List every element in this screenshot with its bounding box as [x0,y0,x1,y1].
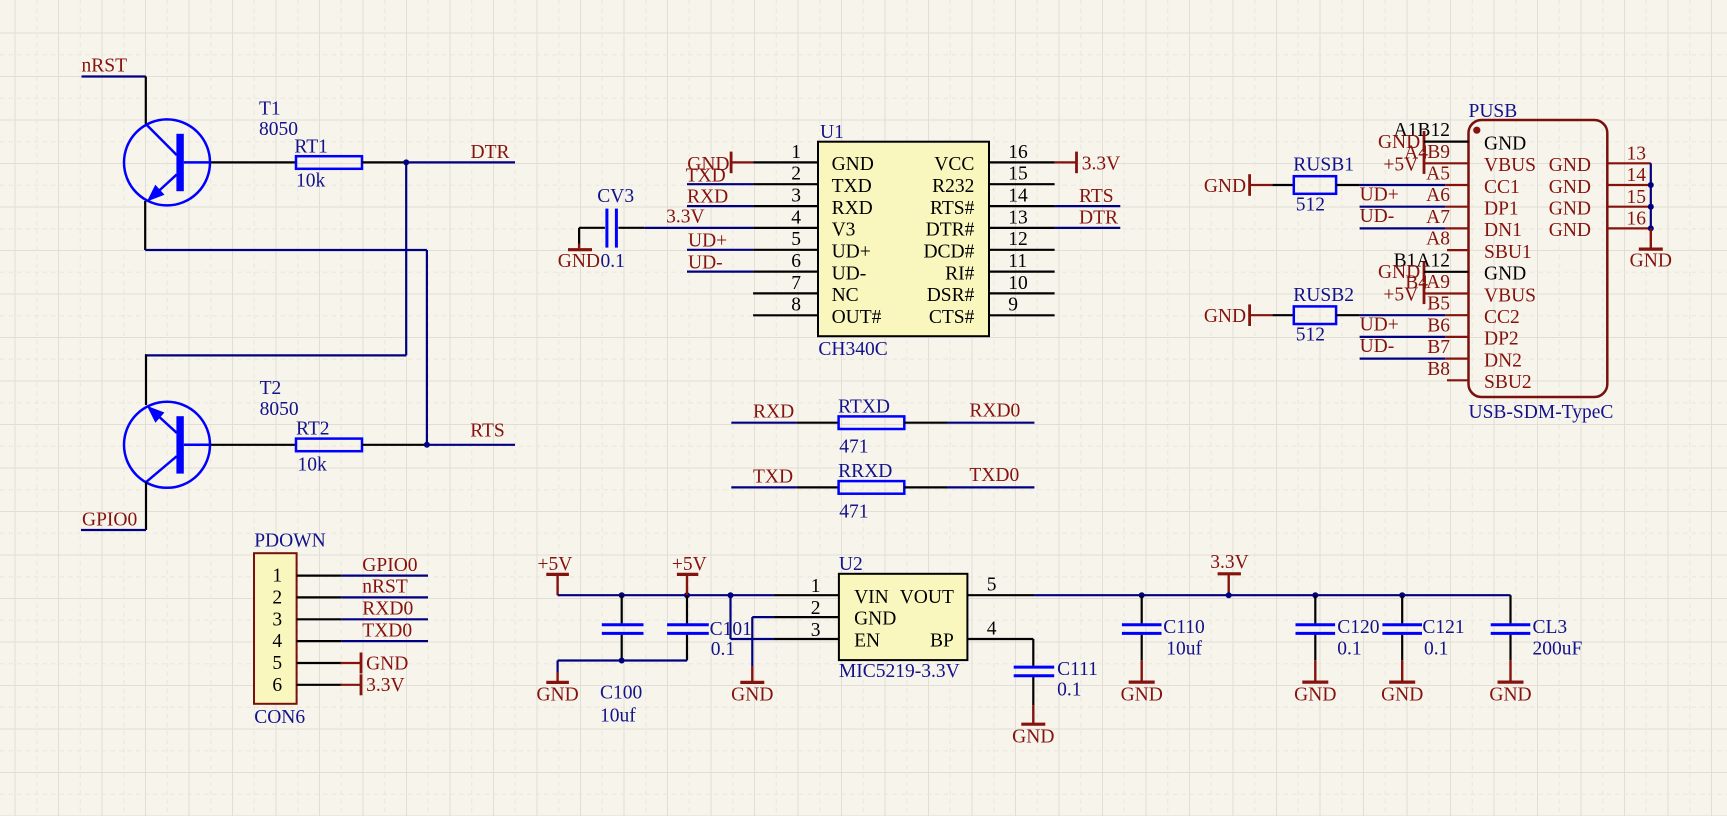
wire UD+ to DP2 [1360,336,1469,338]
PUSB right pin name GND row2 [1549,155,1591,176]
svg-text:U1: U1 [820,122,844,143]
svg-text:1: 1 [811,576,821,597]
svg-text:OUT#: OUT# [832,307,882,328]
PUSB right pin name GND row3 [1549,177,1591,198]
net label nRST at PDOWN [362,577,408,598]
svg-text:GND: GND [1489,684,1531,705]
svg-text:0.1: 0.1 [1337,639,1361,660]
junction shield row5 [1648,225,1654,231]
net label TXD0 at PDOWN [362,620,412,641]
net label TXD [753,466,793,487]
junction C100 [619,592,625,598]
capacitor C120 [1296,595,1336,660]
PUSB pin designator A5 row3 [1426,164,1450,185]
svg-text:TXD: TXD [686,165,726,186]
wire +5V rail [558,594,774,596]
svg-text:8: 8 [791,295,801,316]
svg-text:SBU1: SBU1 [1484,242,1532,263]
resistor RT1 [296,156,362,169]
label RTXD value 471 [839,437,868,458]
svg-text:0.1: 0.1 [1057,680,1081,701]
svg-text:471: 471 [839,437,868,458]
PUSB right pin name GND row5 [1549,220,1591,241]
svg-text:DTR: DTR [1079,208,1118,229]
svg-text:5: 5 [272,653,282,674]
wire GND to RUSB1 [1250,184,1294,186]
op-amp U1 body [818,142,989,337]
label PUSB designator [1469,101,1518,122]
wire RXD [731,422,797,424]
svg-text:+5V: +5V [1383,285,1418,306]
svg-text:GND: GND [1549,199,1591,220]
U1 pin 3 RXD [753,186,873,219]
svg-text:DTR#: DTR# [926,220,975,241]
svg-text:BP: BP [930,631,954,652]
label C101 designator [710,619,752,640]
svg-text:UD+: UD+ [1360,315,1399,336]
label T1 designator [259,99,281,120]
PUSB pin designator A8 row6 [1426,229,1450,250]
svg-text:GND: GND [1484,264,1526,285]
svg-text:2: 2 [791,164,801,185]
wire RUSB2 right [1336,314,1360,316]
svg-text:RXD: RXD [753,402,794,423]
svg-text:GND: GND [832,154,874,175]
svg-text:5: 5 [791,229,801,250]
svg-text:15: 15 [1627,187,1647,208]
PDOWN pin 4 [272,631,341,652]
svg-text:13: 13 [1627,144,1647,165]
svg-text:CC2: CC2 [1484,307,1520,328]
wire RT1 right [362,161,406,163]
svg-text:EN: EN [854,631,880,652]
net label GPIO0 [82,510,137,531]
U1 pin 15 R232 [932,164,1054,197]
U2 pin 3 [773,620,839,641]
power GND at RUSB1 [1204,174,1250,197]
svg-text:1: 1 [791,142,801,163]
svg-text:SBU2: SBU2 [1484,372,1532,393]
svg-text:8050: 8050 [259,119,298,140]
svg-text:10k: 10k [298,454,328,475]
svg-text:DSR#: DSR# [927,285,975,306]
svg-text:3: 3 [272,609,282,630]
power GND at PUSB B1A12 [1378,261,1469,283]
wire RUSB2 to CC2 [1360,314,1469,316]
label C110 value 10uf [1166,639,1202,660]
svg-text:R232: R232 [932,176,974,197]
svg-text:GND: GND [1549,220,1591,241]
net label UD+ at DP1 [1360,184,1399,205]
U2 pin 2 [773,598,839,619]
svg-text:10uf: 10uf [1166,639,1202,660]
PUSB pin name VBUS row8 [1484,285,1536,306]
svg-text:9: 9 [1008,295,1018,316]
svg-text:B7: B7 [1427,337,1450,358]
svg-text:DP1: DP1 [1484,199,1519,220]
U1 pin 16 VCC [934,142,1054,175]
svg-text:RTXD: RTXD [838,397,890,418]
svg-text:VCC: VCC [934,154,974,175]
svg-text:GPIO0: GPIO0 [82,510,137,531]
PUSB pin 14 [1607,165,1651,186]
wire shield bus [1650,163,1652,228]
ground at CV3 [558,228,600,272]
junction EN branch [728,592,734,598]
wire UD+ to DP1 [1360,206,1469,208]
svg-text:TXD0: TXD0 [362,620,412,641]
wire TXD0 [947,486,1034,488]
svg-text:UD-: UD- [832,263,867,284]
svg-text:UD+: UD+ [688,231,727,252]
label C121 value 0.1 [1424,639,1448,660]
capacitor C101 [667,595,709,660]
wire RTXD left [797,422,839,424]
svg-text:C120: C120 [1337,617,1379,638]
svg-text:A6: A6 [1426,185,1450,206]
wire to T2 emitter [145,354,147,405]
svg-text:GND: GND [1204,306,1246,327]
net label RTS [470,420,505,441]
PDOWN pin 1 [272,566,341,587]
net label TXD [686,165,726,186]
junction shield row4 [1648,204,1654,210]
svg-text:DTR: DTR [471,142,510,163]
svg-text:13: 13 [1008,207,1028,228]
capacitor C110 [1122,595,1162,660]
U2 pin 4 [967,618,1033,639]
label PUSB value USB-SDM-TypeC [1469,402,1614,423]
junction C110 [1139,592,1145,598]
svg-text:16: 16 [1627,209,1647,230]
svg-text:GPIO0: GPIO0 [362,555,417,576]
svg-text:3.3V: 3.3V [1082,154,1120,175]
svg-text:T1: T1 [259,99,281,120]
wire RTS [427,444,515,446]
regulator U2 body [839,574,968,660]
label T2 designator [260,378,282,399]
PUSB pin name CC1 row3 [1484,177,1520,198]
svg-text:B6: B6 [1427,315,1450,336]
svg-text:B8: B8 [1427,359,1450,380]
svg-text:GND: GND [366,653,408,674]
svg-text:6: 6 [272,675,282,696]
PUSB right pin name GND row4 [1549,199,1591,220]
power GND at PUSB A1B12 [1378,131,1469,153]
wire UD+ [687,249,753,251]
PUSB pin designator B7 row11 [1427,337,1450,358]
svg-text:6: 6 [791,251,801,272]
wire TXD0 at PDOWN [342,640,428,642]
net label 3.3V [666,207,704,228]
wire to T1 collector [145,77,147,125]
wire TXD [731,486,797,488]
wire DTR [406,161,515,163]
wire RXD0 at PDOWN [342,618,428,620]
wire DTR vertical [405,162,407,355]
ground at CL3 [1489,660,1531,705]
svg-text:14: 14 [1627,165,1647,186]
label RRXD value 471 [839,501,868,522]
power GND at RUSB2 [1204,304,1250,327]
svg-text:15: 15 [1008,164,1028,185]
PUSB pin designator B6 row10 [1427,315,1450,336]
power +5V right [672,554,707,595]
wire emitter horizontal [145,249,427,251]
label C100 designator [600,683,642,704]
U1 pin 6 UD- [753,251,866,284]
wire nRST at PDOWN [342,596,428,598]
resistor RT2 [296,439,362,452]
PUSB pin1 mark [1473,127,1480,134]
svg-text:VOUT: VOUT [900,587,954,608]
PUSB pin name SBU1 row6 [1484,242,1532,263]
svg-text:TXD: TXD [753,466,793,487]
svg-text:+5V: +5V [1383,154,1418,175]
svg-text:RUSB1: RUSB1 [1293,155,1354,176]
svg-text:C110: C110 [1163,617,1205,638]
label C111 value 0.1 [1057,680,1081,701]
label CL3 value 200uF [1533,639,1583,660]
U1 pin 13 DTR# [926,207,1055,240]
svg-text:CV3: CV3 [597,186,634,207]
junction RTS [424,442,430,448]
junction C120 [1312,592,1318,598]
label RTXD designator [838,397,890,418]
net label RXD [687,187,728,208]
U2 pin name VOUT [900,587,954,608]
svg-text:USB-SDM-TypeC: USB-SDM-TypeC [1469,402,1614,423]
PDOWN pin 5 [272,653,341,674]
PUSB pin 16 [1607,209,1651,230]
connector PUSB body [1469,120,1608,397]
wire GPIO0 at PDOWN [342,574,428,576]
U1 pin 9 CTS# [929,295,1055,328]
svg-text:2: 2 [272,587,282,608]
svg-text:VBUS: VBUS [1484,285,1536,306]
svg-text:DN2: DN2 [1484,350,1522,371]
label U2 value MIC5219-3.3V [839,661,960,682]
power 3.3V rail [1210,552,1248,595]
resistor RUSB1 [1294,176,1336,194]
U1 pin 12 DCD# [923,229,1054,262]
ground at C121 [1381,660,1423,705]
svg-text:7: 7 [791,273,801,294]
wire RXD [687,205,753,207]
PUSB pin designator A1B12 row1 [1394,120,1450,141]
capacitor C121 [1382,595,1422,660]
svg-text:5: 5 [987,575,997,596]
wire RTS out [1055,205,1121,207]
U2 pin name VIN [854,587,889,608]
PUSB pin name SBU2 row12 [1484,372,1532,393]
label RUSB2 value 512 [1296,325,1325,346]
label C120 value 0.1 [1337,639,1361,660]
net label UD- at DN2 [1360,336,1395,357]
svg-text:10: 10 [1008,273,1028,294]
label RUSB1 designator [1293,155,1354,176]
svg-text:3: 3 [791,186,801,207]
PUSB pin SBU2 stub [1447,379,1469,381]
ground at C120 [1294,660,1336,705]
net label GPIO0 at PDOWN [362,555,417,576]
U2 pin 1 [773,576,839,597]
svg-text:GND: GND [558,251,600,272]
svg-text:3.3V: 3.3V [1210,552,1248,573]
wire DTR out [1055,227,1121,229]
svg-text:A8: A8 [1426,229,1450,250]
PUSB pin name CC2 row9 [1484,307,1520,328]
svg-text:GND: GND [854,609,896,630]
svg-text:RRXD: RRXD [838,461,892,482]
svg-text:UD-: UD- [1360,336,1395,357]
svg-text:PDOWN: PDOWN [254,531,326,552]
power 3.3V at U1 pin16 [1055,152,1121,175]
connector PDOWN body [254,553,297,704]
PUSB pin designator A9 row8 [1405,272,1450,294]
svg-text:UD+: UD+ [1360,184,1399,205]
power GND at PDOWN pin5 [340,653,408,675]
svg-text:3.3V: 3.3V [366,675,404,696]
ground at C111 [1012,705,1054,747]
label CV3 value 0.1 [601,251,625,272]
power 3.3V at PDOWN pin6 [340,674,404,696]
label C111 designator [1057,659,1098,680]
capacitor CL3 [1491,625,1531,661]
ground at C110 [1121,660,1163,705]
wire TXD [687,183,753,185]
wire 3.3V rail [1035,594,1511,596]
svg-text:512: 512 [1296,325,1325,346]
net label DTR out [1079,208,1118,229]
svg-text:12: 12 [1008,229,1028,250]
svg-text:NC: NC [832,285,859,306]
label RT2 value 10k [298,454,328,475]
label C120 designator [1337,617,1379,638]
wire EN branch [731,595,774,639]
net label RXD0 at PDOWN [362,599,413,620]
svg-text:4: 4 [791,207,801,228]
svg-text:C101: C101 [710,619,752,640]
svg-text:C111: C111 [1057,659,1098,680]
svg-text:0.1: 0.1 [1424,639,1448,660]
PDOWN pin 2 [272,587,341,608]
net label nRST [82,56,128,77]
wire RTS vertical [426,250,428,445]
wire GND to RUSB2 [1250,314,1294,316]
svg-text:471: 471 [839,501,868,522]
power +5V at PUSB A9 [1383,283,1468,306]
PUSB pin name VBUS row2 [1484,155,1536,176]
label CL3 designator [1533,617,1568,638]
U1 pin 10 DSR# [927,273,1055,306]
svg-text:C100: C100 [600,683,642,704]
PUSB pin name DN2 row11 [1484,350,1522,371]
power +5V at PUSB B9 [1383,153,1468,176]
label U1 designator [820,122,844,143]
svg-text:3: 3 [811,620,821,641]
wire UD- to DN1 [1360,227,1469,229]
transistor T1 [124,119,211,205]
wire RT2 right [362,444,427,446]
net label UD- [688,252,723,273]
capacitor C111 [1014,639,1054,705]
label PDOWN designator [254,531,326,552]
svg-text:UD+: UD+ [832,242,871,263]
svg-text:U2: U2 [839,554,863,575]
U2 pin 5 [967,575,1034,596]
svg-text:0.1: 0.1 [711,639,735,660]
svg-text:GND: GND [1121,684,1163,705]
PUSB pin designator B9 row2 [1404,142,1450,164]
svg-text:16: 16 [1008,142,1028,163]
label U2 designator [839,554,863,575]
svg-text:3.3V: 3.3V [666,207,704,228]
wire T1 emitter down [144,201,146,250]
wire 3.3V to V3 [644,227,753,229]
U1 pin 4 V3 [753,207,855,240]
wire RUSB1 to CC1 [1360,184,1469,186]
svg-text:GND: GND [1012,726,1054,747]
label C101 value 0.1 [711,639,735,660]
wire T2 base [211,444,296,446]
label T2 value 8050 [260,399,299,420]
PUSB pin designator A6 row4 [1426,185,1450,206]
PUSB pin name DP1 row4 [1484,199,1519,220]
power GND at U1 pin1 [687,152,753,176]
svg-text:TXD0: TXD0 [969,465,1019,486]
svg-text:RTS: RTS [1079,186,1114,207]
svg-text:RUSB2: RUSB2 [1293,285,1354,306]
svg-text:2: 2 [811,598,821,619]
svg-text:0.1: 0.1 [601,251,625,272]
PUSB pin 13 [1607,144,1651,165]
svg-text:CL3: CL3 [1533,617,1568,638]
power +5V left [538,554,573,595]
PUSB pin SBU1 stub [1447,249,1469,251]
net label UD+ [688,231,727,252]
wire GPIO0 [81,529,146,531]
U1 pin 5 UD+ [753,229,871,262]
junction C121 [1399,592,1405,598]
svg-text:V3: V3 [832,220,856,241]
wire 3.3V drop to CL3 [1509,595,1511,623]
svg-text:CC1: CC1 [1484,177,1520,198]
svg-text:+5V: +5V [538,554,573,575]
net label UD- at DN1 [1360,206,1395,227]
wire nRST [82,75,146,77]
U1 pin 11 RI# [945,251,1054,284]
ground at C100 rail [536,672,578,706]
wire RRXD left [797,486,839,488]
svg-text:GND: GND [1630,251,1672,272]
wire T1 base [211,161,296,163]
svg-text:A9: A9 [1426,272,1450,293]
wire RXD0 [947,422,1034,424]
U1 pin 8 OUT# [753,295,882,328]
junction gnd rail C100 [619,658,625,664]
wire U2 GND branch [752,617,773,666]
label U1 value CH340C [818,339,887,360]
junction shield row3 [1648,182,1654,188]
svg-text:RXD0: RXD0 [362,599,413,620]
svg-text:GND: GND [1378,132,1420,153]
svg-text:8050: 8050 [260,399,299,420]
ground at PUSB shield [1630,228,1672,271]
svg-text:PUSB: PUSB [1469,101,1518,122]
capacitor C100 [602,595,644,660]
wire T2 collector down [145,482,147,530]
